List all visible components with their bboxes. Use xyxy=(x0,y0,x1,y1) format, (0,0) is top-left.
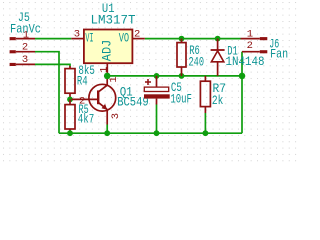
svg-text:2k: 2k xyxy=(212,93,224,108)
node Q1 emitter junction xyxy=(104,130,110,136)
node R7 bottom junction xyxy=(203,130,209,136)
node C5 top junction xyxy=(154,73,160,79)
diode D1 xyxy=(211,39,225,76)
svg-text:2: 2 xyxy=(22,42,28,54)
node R6 bottom junction xyxy=(179,73,185,79)
svg-text:2: 2 xyxy=(79,95,85,107)
connector J5 pin 1 xyxy=(10,30,35,42)
node base junction xyxy=(67,97,73,103)
U1 pin 3 VI stub xyxy=(71,29,84,41)
svg-text:Fan: Fan xyxy=(270,47,288,62)
svg-text:1: 1 xyxy=(247,28,253,40)
svg-text:ADJ: ADJ xyxy=(100,40,115,62)
U1 pin 2 VO stub xyxy=(132,29,144,41)
node R6 top junction xyxy=(179,36,185,42)
svg-text:LM317T: LM317T xyxy=(91,12,136,27)
svg-text:2: 2 xyxy=(247,40,253,52)
node D1 top junction xyxy=(215,36,221,42)
wire C5 bottom to rail xyxy=(156,105,158,134)
transistor Q1 xyxy=(72,76,116,125)
svg-text:2: 2 xyxy=(134,29,140,41)
svg-text:1: 1 xyxy=(99,67,111,73)
svg-text:VI: VI xyxy=(85,30,93,45)
node ADJ junction xyxy=(104,73,111,80)
svg-text:240: 240 xyxy=(189,55,205,70)
resistor R5 xyxy=(65,99,75,133)
wire Q1 emitter to rail xyxy=(106,125,108,134)
svg-text:3: 3 xyxy=(110,113,122,119)
connector J6 pin 1 xyxy=(241,28,268,40)
svg-text:BC549: BC549 xyxy=(117,95,149,110)
svg-text:10uF: 10uF xyxy=(170,92,192,107)
wire R7 bottom to rail xyxy=(204,113,206,133)
wire J5.1 to U1.VI xyxy=(35,38,71,40)
svg-text:R4: R4 xyxy=(77,73,88,88)
svg-text:4k7: 4k7 xyxy=(78,112,95,127)
svg-text:FanVc: FanVc xyxy=(10,22,41,37)
wire ADJ row xyxy=(107,75,242,77)
wire J5.3 to R4 top xyxy=(35,64,70,66)
svg-text:1N4148: 1N4148 xyxy=(226,54,265,69)
node right column junction xyxy=(239,73,246,80)
svg-text:VO: VO xyxy=(119,30,130,45)
wire U1.VO to J6.1 xyxy=(145,38,241,40)
svg-text:3: 3 xyxy=(22,54,28,66)
U1 pin 1 ADJ stub xyxy=(99,63,111,76)
resistor R4 xyxy=(65,66,75,99)
capacitor C5 xyxy=(144,76,170,105)
regulator U1 body xyxy=(84,30,132,64)
svg-text:3: 3 xyxy=(74,29,80,41)
wire J5.2 down to bottom rail xyxy=(35,52,59,134)
connector J5 pin 2 xyxy=(10,42,35,54)
node R5 bottom junction xyxy=(67,130,73,136)
wire J6.2 down to bottom rail xyxy=(241,52,243,134)
node C5 bottom junction xyxy=(154,130,160,136)
wire bottom rail xyxy=(59,132,242,134)
resistor R7 xyxy=(200,76,210,113)
connector J5 pin 3 xyxy=(10,54,35,66)
resistor R6 xyxy=(177,39,186,76)
connector J6 pin 2 xyxy=(242,40,267,53)
